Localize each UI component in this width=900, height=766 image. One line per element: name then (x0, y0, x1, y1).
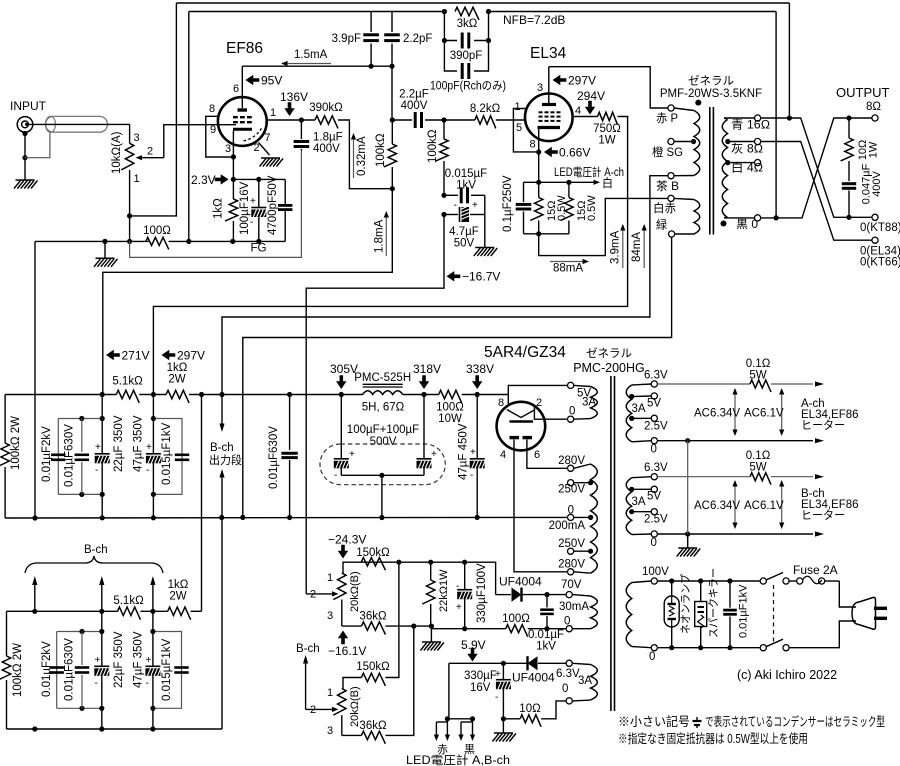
svg-text:330µF: 330µF (464, 670, 497, 682)
voltage -16.7V bias feed (447, 270, 501, 284)
svg-text:2.5V: 2.5V (644, 421, 668, 433)
capacitor 100uF 16V cathode bypass (239, 179, 267, 241)
wire: cathode sense top rail (524, 181, 569, 183)
resistor 750R 1W screen (572, 112, 621, 146)
capacitor 47uF 350V A-ch (133, 395, 162, 518)
wire: to mains plug (789, 581, 856, 648)
wire: OPT green down to ground bus7 (240, 237, 671, 520)
switch SW1b (760, 639, 789, 651)
svg-text:1: 1 (327, 687, 333, 699)
capacitor 4.7uF 50V bias filter (441, 200, 484, 250)
voltage 0.66V at EL34 cathode (536, 146, 590, 160)
VR3 wiper arrow (306, 707, 339, 712)
svg-text:22µF 350V: 22µF 350V (113, 631, 125, 688)
svg-text:-: - (146, 678, 149, 689)
capacitor 330uF 100V bias reservoir (456, 562, 488, 631)
svg-text:ゼネラル: ゼネラル (688, 75, 734, 88)
svg-text:3.9pF: 3.9pF (332, 33, 361, 45)
svg-text:297V: 297V (568, 74, 596, 88)
ground: heater circuit (677, 548, 701, 557)
svg-text:2: 2 (536, 397, 542, 409)
EL34 pin numbers (515, 82, 582, 151)
wire: EL34 g3 pin1 strap to cathode (513, 109, 538, 152)
wire: B-ch B+ rail (7, 609, 202, 614)
svg-text:6.3V: 6.3V (556, 668, 580, 680)
wire: cable shield to jack shell (25, 132, 50, 158)
NFB network box wires (442, 12, 491, 72)
capacitor 2.2pF (384, 12, 432, 67)
svg-text:1kV: 1kV (456, 180, 476, 192)
svg-text:1: 1 (327, 572, 333, 584)
5AR4 cathode bar (510, 420, 534, 423)
voltage 294V at screen (577, 89, 605, 115)
arrow: B-ch feed 2 (99, 576, 104, 611)
voltage -16.1V (328, 631, 366, 659)
svg-text:400V: 400V (313, 143, 340, 155)
capacitor 47uF 350V B-ch (133, 611, 161, 729)
svg-text:100pF(Rchのみ): 100pF(Rchのみ) (430, 80, 506, 93)
svg-text:20kΩ(B): 20kΩ(B) (349, 571, 361, 612)
can cap section 2 100uF (417, 395, 438, 482)
arrow: B-ch feed 1 (32, 576, 37, 611)
svg-text:PMC-200HG: PMC-200HG (573, 361, 645, 375)
svg-text:8: 8 (209, 103, 215, 115)
capacitor 0.01uF 630V B-ch (64, 632, 90, 709)
EF86 suppressor dashed arc (244, 128, 263, 141)
svg-text:0(KT88): 0(KT88) (860, 222, 900, 234)
svg-text:0.015µF1kV: 0.015µF1kV (161, 638, 173, 701)
wire: top bus 2 (NFB from 16 ohm tap) (189, 9, 776, 14)
svg-text:100µF+100µF: 100µF+100µF (347, 424, 419, 436)
svg-text:50V: 50V (454, 238, 475, 250)
wire: NFB line from top (wire2) down to FG rail (188, 12, 190, 242)
wire: A-ch heater 0 line (657, 438, 824, 443)
wire: screen feed down to 297V bus5 (153, 117, 627, 395)
EL34 plate bar pin3 (542, 67, 556, 105)
svg-text:100kΩ: 100kΩ (375, 133, 387, 167)
svg-text:150kΩ: 150kΩ (356, 547, 390, 559)
svg-text:灰 8Ω: 灰 8Ω (731, 142, 763, 156)
capacitor 330uF 16V meter reservoir (464, 663, 511, 719)
svg-text:47µF 350V: 47µF 350V (133, 415, 145, 472)
svg-text:250V: 250V (558, 538, 585, 550)
svg-text:-: - (250, 217, 253, 228)
svg-text:+: + (95, 442, 101, 453)
ground: input jack (14, 180, 38, 189)
svg-text:9: 9 (210, 124, 216, 136)
voltage 95V at EF86 plate (246, 74, 283, 88)
winding 70V 30mA bias (559, 579, 597, 632)
speaker terminal 0(KT88) (860, 214, 900, 234)
svg-text:6.3V: 6.3V (644, 370, 668, 382)
svg-text:4700pF50V: 4700pF50V (267, 175, 279, 235)
current 1.8mA annotation (374, 211, 389, 256)
svg-text:ネオンランプ: ネオンランプ (679, 574, 692, 634)
voltage 271V arrow (106, 349, 150, 363)
svg-text:5AR4/GZ34: 5AR4/GZ34 (484, 344, 566, 361)
svg-text:2W: 2W (169, 591, 186, 603)
speaker terminal 0(EL34)/0(KT66) (860, 237, 900, 268)
switch gang dashed link (773, 585, 775, 644)
svg-text:1.8mA: 1.8mA (374, 219, 386, 253)
svg-text:1: 1 (134, 173, 140, 185)
potentiometer VR3 20k(B) bias B (310, 686, 361, 737)
capacitor 0.047uF 400V zobel (842, 163, 883, 217)
svg-text:ヒーター: ヒーター (801, 509, 845, 522)
svg-text:8: 8 (530, 139, 536, 151)
svg-text:3: 3 (134, 132, 140, 144)
fuse 2A (789, 563, 839, 584)
resistor Rk 1k EF86 cathode (213, 179, 238, 241)
svg-text:ヒーター: ヒーター (801, 419, 845, 432)
annotation AC6.1V A-ch (744, 388, 784, 436)
resistor 3k NFB (455, 7, 479, 30)
svg-text:8Ω: 8Ω (866, 101, 881, 113)
wire: A-ch heater 6.3V line with 0.1R 5W (657, 358, 824, 392)
svg-text:+: + (95, 655, 101, 666)
svg-text:5H, 67Ω: 5H, 67Ω (362, 402, 405, 414)
svg-text:6.3V: 6.3V (644, 462, 668, 474)
wire: can common to ground rail (341, 473, 424, 518)
wire: jack center conductor to pot top (28, 124, 130, 143)
winding 100V mains primary (626, 566, 669, 663)
wire: cathode network top rail (231, 177, 285, 182)
svg-text:7: 7 (265, 132, 271, 144)
label LED voltmeter A-ch (554, 165, 624, 179)
T1 secondary winding (722, 118, 727, 218)
current 84mA annotation (631, 224, 647, 268)
svg-text:橙 SG: 橙 SG (652, 145, 683, 159)
svg-text:0.1µF250V: 0.1µF250V (502, 175, 514, 232)
label B-ch bias wiper (296, 643, 320, 709)
wire: 16 ohm line with crossover to 0(KT88) (761, 115, 872, 219)
ground: EF86 heater (260, 158, 284, 167)
svg-text:0(KT66): 0(KT66) (860, 257, 900, 269)
wire: 390k right to supply node X (338, 120, 392, 189)
choke L1 PMC-525H 5H 67R (354, 372, 411, 414)
svg-text:318V: 318V (413, 362, 441, 376)
svg-text:2.2µF: 2.2µF (399, 89, 429, 101)
wire: 5AR4 anode pin4 to 280V bottom (514, 440, 567, 572)
T1 secondary phase dot (721, 221, 727, 227)
capacitor 0.01uF 1kV bias snubber (528, 595, 564, 653)
wire: ground rail y241 with 100R (35, 239, 235, 244)
label OUTPUT (836, 85, 890, 100)
voltage 2.3V at EF86 cathode (191, 173, 229, 187)
svg-text:36kΩ: 36kΩ (359, 611, 387, 623)
EF86 grid rows (233, 117, 252, 122)
T1 primary upper winding (674, 108, 700, 176)
wire: jack shell to ground (22, 131, 27, 180)
voltage -24.3V (328, 533, 366, 559)
T1 terminal white-red (653, 195, 676, 215)
svg-text:UF4004: UF4004 (499, 575, 542, 589)
cap group box 2 A-ch (151, 416, 182, 497)
svg-text:赤 P: 赤 P (656, 112, 678, 125)
potentiometer VR1 10k(A) volume (111, 131, 153, 185)
LED meter lead arrows red (434, 719, 450, 756)
svg-text:1kV: 1kV (536, 641, 556, 653)
svg-text:NFB=7.2dB: NFB=7.2dB (503, 13, 565, 27)
svg-text:−16.7V: −16.7V (462, 270, 500, 284)
svg-text:白 4Ω: 白 4Ω (731, 161, 763, 175)
voltage 297V arrow (162, 349, 206, 363)
svg-text:5V: 5V (647, 491, 661, 503)
resistor 150k bias divider A (356, 547, 390, 570)
svg-text:0.1Ω: 0.1Ω (746, 450, 771, 462)
svg-text:750Ω: 750Ω (593, 123, 621, 135)
svg-text:+: + (146, 655, 152, 666)
svg-text:0: 0 (569, 406, 575, 418)
svg-text:0.32mA: 0.32mA (356, 136, 368, 176)
svg-text:EF86: EF86 (226, 40, 263, 57)
svg-text:2.5V: 2.5V (644, 514, 668, 526)
HV winding labels (549, 455, 586, 571)
resistor 1k 2W B-ch (168, 579, 191, 620)
5AR4 anode plates (510, 436, 533, 439)
capacitor 0.1uF 250V cathode sense (502, 175, 531, 234)
diode D1 UF4004 (496, 575, 566, 602)
wire: top bus 1 (output common loop) (176, 2, 789, 4)
wire: meter output leads (445, 663, 475, 721)
svg-text:AC6.34V: AC6.34V (694, 500, 740, 512)
wire: B-ch ground rail (7, 726, 223, 731)
wire: VR1 wiper up to EF86 grid g1 (164, 125, 236, 158)
svg-text:390kΩ: 390kΩ (309, 102, 343, 114)
svg-text:LED電圧計 A-ch: LED電圧計 A-ch (554, 165, 624, 179)
svg-text:4.7µF: 4.7µF (449, 226, 479, 238)
annotation AC6.1V B-ch (744, 480, 784, 529)
potentiometer VR2 20k(B) bias A (310, 571, 361, 626)
wire: A-ch ground rail (5, 515, 567, 521)
svg-text:2.3V: 2.3V (191, 173, 216, 187)
resistor 100k EL34 grid leak (427, 120, 448, 198)
svg-text:0.01µF: 0.01µF (528, 629, 564, 641)
ground: main signal ground (94, 241, 118, 266)
capacitor 0.01uF 2kV B-ch (41, 641, 64, 697)
svg-text:-: - (146, 465, 149, 476)
EF86 anode (plate) bar pin6 (238, 66, 248, 110)
svg-text:+: + (250, 196, 256, 207)
svg-text:INPUT: INPUT (10, 99, 47, 113)
svg-text:0.01µF630V: 0.01µF630V (64, 638, 76, 701)
svg-text:136V: 136V (280, 90, 308, 104)
resistor 100R NFB injection (143, 225, 171, 249)
capacitor 1.8uF 400V g2 bypass (294, 120, 343, 155)
svg-text:150kΩ: 150kΩ (356, 661, 390, 673)
svg-text:スパークキラー: スパークキラー (707, 568, 720, 638)
svg-text:+: + (470, 447, 476, 458)
wire: plate node down to coupling node N1 (390, 66, 395, 122)
wire: VR1 bottom to ground rail (127, 170, 132, 244)
svg-text:88mA: 88mA (553, 263, 583, 275)
capacitor 0.01uF 1kV mains (723, 581, 749, 648)
T1 terminal red P (656, 105, 678, 125)
capacitor 0.01uF 630V A-ch (64, 419, 90, 495)
svg-text:6: 6 (233, 83, 239, 95)
resistor 36k bias A (342, 611, 434, 635)
svg-text:1: 1 (515, 101, 521, 113)
svg-text:0: 0 (562, 683, 568, 695)
winding 6.3V 3A meter (556, 660, 597, 704)
T1 primary phase dot (695, 100, 701, 106)
svg-text:5.1kΩ: 5.1kΩ (113, 595, 144, 607)
svg-text:OUTPUT: OUTPUT (836, 85, 890, 100)
svg-text:-: - (495, 692, 498, 703)
svg-text:1kΩ: 1kΩ (167, 362, 188, 374)
svg-text:200mA: 200mA (549, 520, 586, 532)
T1 terminal green (656, 218, 675, 238)
wire: bias filter right side to ground (484, 195, 486, 247)
svg-text:(c) Aki Ichiro 2022: (c) Aki Ichiro 2022 (737, 668, 837, 682)
svg-text:0.5W: 0.5W (556, 195, 568, 221)
net label NFB=7.2dB (503, 13, 565, 27)
note 2 resistor wattage (618, 731, 808, 746)
svg-text:+: + (349, 449, 355, 460)
svg-text:8: 8 (498, 397, 504, 409)
svg-text:+: + (146, 442, 152, 453)
resistor 100k 2W bleeder B-ch (0, 611, 24, 729)
svg-text:0: 0 (649, 651, 655, 663)
svg-text:10kΩ(A): 10kΩ(A) (111, 131, 123, 174)
EF86 cathode bar pin3 (231, 129, 252, 179)
current 0.32mA annotation (351, 133, 368, 178)
capacitor 0.01uF 630V output stage A (268, 395, 298, 518)
svg-text:0.01µF2kV: 0.01µF2kV (41, 426, 53, 482)
capacitor 100pF (Rch only) NFB (430, 63, 506, 93)
svg-text:-: - (95, 465, 98, 476)
svg-text:47µF 450V: 47µF 450V (458, 423, 470, 480)
svg-text:100kΩ: 100kΩ (427, 129, 439, 163)
T1 core (710, 107, 714, 235)
voltage 5.9V (461, 638, 486, 662)
svg-text:280V: 280V (558, 559, 585, 571)
svg-text:B-ch: B-ch (84, 544, 108, 556)
svg-text:1: 1 (270, 107, 276, 119)
resistor 22k 1W (422, 562, 450, 626)
wire: top bus1 right leg down to 16 ohm tap (ground return) (788, 3, 790, 118)
svg-text:※指定なき固定抵抗器は 0.5W型以上を使用: ※指定なき固定抵抗器は 0.5W型以上を使用 (618, 731, 808, 746)
wire: EL34 plate to OPT red P (549, 67, 668, 108)
svg-text:-: - (470, 470, 473, 481)
wire: signal-ground bus to 1.8uF (y257) (130, 151, 302, 258)
svg-text:0.01µF630V: 0.01µF630V (268, 426, 280, 489)
svg-text:0.01µF2kV: 0.01µF2kV (41, 641, 53, 697)
arrow: B-ch feed 3 (150, 576, 155, 611)
svg-text:AC6.1V: AC6.1V (744, 500, 784, 512)
wire: OPT brown B down to 305V bus6 (222, 176, 668, 395)
svg-text:0.01µF1kV: 0.01µF1kV (738, 584, 750, 638)
svg-text:5W: 5W (749, 370, 766, 382)
resistor 100R bias return (431, 613, 566, 637)
neon lamp (664, 574, 692, 648)
capacitor 3.9pF (332, 12, 379, 67)
resistor 5.1k A-ch (112, 376, 143, 403)
winding 5V 3A rectifier filament (568, 382, 598, 422)
svg-text:2: 2 (254, 142, 260, 154)
arrow to LED meter white (566, 176, 613, 190)
svg-text:22kΩ1W: 22kΩ1W (438, 569, 450, 612)
svg-text:+: + (472, 200, 478, 211)
annotation AC6.34V A-ch (694, 388, 740, 436)
wire: mains top line (657, 578, 760, 583)
wiper arrow of VR1 (136, 155, 164, 160)
label LED voltmeter A,B-ch (406, 753, 510, 766)
resistor 390k g2 feed (309, 102, 343, 128)
svg-text:100Ω: 100Ω (502, 613, 530, 625)
svg-text:B-ch: B-ch (210, 442, 234, 454)
svg-text:3A: 3A (578, 675, 592, 687)
resistor 100k EF86 plate load (375, 120, 397, 191)
svg-text:100kΩ 2W: 100kΩ 2W (12, 643, 24, 697)
ground: bias filter (474, 248, 498, 257)
svg-text:2W: 2W (168, 374, 185, 386)
VR2 wiper arrow (306, 591, 338, 596)
svg-text:0.015µF1kV: 0.015µF1kV (161, 422, 173, 485)
svg-text:PMC-525H: PMC-525H (354, 372, 411, 384)
svg-text:+: + (431, 449, 437, 460)
wire: 5AR4 anode pin6 to 280V top (527, 440, 567, 469)
resistor 8.2k EL34 grid stopper (444, 103, 526, 128)
wire: node X down to 271V bus (103, 189, 393, 395)
svg-text:338V: 338V (466, 362, 494, 376)
5AR4 pin numbers (498, 397, 542, 461)
svg-text:白: 白 (602, 176, 613, 190)
svg-text:+: + (456, 602, 462, 613)
annotation AC6.34V B-ch (694, 480, 740, 529)
wire: EF86 pin1 (g2) to 136V node (267, 117, 315, 122)
capacitor 47uF 450V (458, 395, 486, 518)
wire: EL34 cathode to sense rail (536, 152, 541, 185)
svg-text:茶 B: 茶 B (656, 180, 679, 193)
resistor 10R meter (503, 701, 566, 727)
svg-text:70V: 70V (561, 579, 582, 591)
label B-ch heater destination (801, 488, 859, 522)
current 3.9mA annotation (610, 224, 626, 268)
EL34 grid rows (539, 112, 561, 121)
tube U1 EF86 (218, 40, 267, 146)
wire / label: to B-ch output stage (209, 395, 242, 730)
svg-text:5.1kΩ: 5.1kΩ (112, 376, 143, 388)
resistor 15R 0.5W sense 1 (530, 182, 568, 234)
wire: B-ch filter feed (305V) down (201, 395, 203, 612)
svg-text:5W: 5W (749, 462, 766, 474)
voltage 297V at EL34 plate (553, 74, 597, 88)
wire: EF86 plate line y66 to feedback caps (242, 64, 394, 69)
label A-ch heater destination (801, 398, 859, 432)
svg-text:PMF-20WS-3.5KNF: PMF-20WS-3.5KNF (660, 88, 762, 100)
svg-text:1.5mA: 1.5mA (294, 49, 328, 61)
svg-text:FG: FG (251, 243, 267, 255)
svg-text:緑: 緑 (656, 218, 667, 232)
cap group box B-ch 2 (150, 629, 181, 711)
wire: cathode network bottom rail to FG (233, 239, 285, 244)
svg-text:1kΩ: 1kΩ (213, 198, 225, 219)
svg-text:95V: 95V (261, 74, 282, 88)
wire: 8 ohm tap line crossover to 0(EL34/KT66) (761, 142, 872, 241)
svg-text:1.8µF: 1.8µF (313, 132, 343, 144)
svg-text:1kΩ: 1kΩ (168, 579, 189, 591)
winding HV 280-0-280 (568, 464, 598, 575)
svg-text:3kΩ: 3kΩ (457, 18, 478, 30)
svg-text:500V: 500V (370, 436, 397, 448)
svg-text:-: - (334, 470, 337, 481)
svg-text:2: 2 (147, 146, 153, 158)
resistor 150k bias divider B (343, 562, 399, 688)
wire: EF86 pins 8,9 strap to cathode (206, 116, 232, 157)
wire: pin2 to 5V winding 0 (534, 405, 567, 420)
winding heater A-ch 6.3/5/2.5/0 (626, 370, 668, 456)
